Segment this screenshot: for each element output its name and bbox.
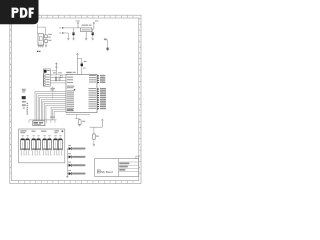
power flag VCC riser <box>77 53 79 74</box>
wire crystal ground <box>52 86 54 99</box>
connector J1 pin 2 <box>62 32 64 34</box>
frame zone numbers top <box>18 16 133 17</box>
X2 inner element <box>39 37 42 41</box>
power flag relay supply <box>101 119 103 127</box>
U3 output stubs <box>47 120 55 123</box>
ground C1 <box>72 39 74 40</box>
frame ruler ticks right <box>139 24 141 173</box>
U3 inner text <box>34 122 39 124</box>
wire TP1 <box>105 40 108 51</box>
wire driver rail <box>29 119 57 121</box>
frame zone letters right <box>138 18 141 168</box>
page frame outer border <box>10 15 141 183</box>
microcontroller U1 <box>66 74 97 112</box>
relay RL2 <box>32 135 41 155</box>
LED D2 <box>67 153 85 158</box>
connector J2 header <box>43 69 50 86</box>
relay RL3 <box>43 135 52 155</box>
crystal labels <box>53 71 56 74</box>
wire J2 top <box>52 70 57 72</box>
U1 right pins top group <box>89 75 105 84</box>
regulator U2 7805 <box>81 28 92 32</box>
U1 bottom-left inner label <box>67 109 73 111</box>
X2 pin wires down <box>39 44 43 47</box>
net label above X2 <box>37 51 39 52</box>
title block row texts <box>119 163 129 165</box>
connector J3 labels <box>22 88 26 91</box>
PDF badge label <box>12 8 34 18</box>
R5 label <box>96 136 99 137</box>
crystal X1 <box>55 77 56 82</box>
port bus wires P2.0-P2.7 <box>35 91 66 120</box>
power flag 12V riser <box>77 22 79 28</box>
driver IC U3 <box>33 121 45 126</box>
frame ruler ticks bottom <box>24 181 127 184</box>
wire VCC branch <box>77 58 81 63</box>
LED D3 <box>67 162 85 167</box>
component D5 <box>78 120 81 125</box>
wire R8 down <box>45 42 47 45</box>
U1 left pin wires to J2 <box>50 75 66 83</box>
oscillator module X2 box <box>38 34 44 45</box>
wire node to X2 <box>37 24 45 35</box>
power flag 5V riser <box>93 22 95 29</box>
connector J3 body <box>22 96 26 99</box>
J2 pin 1 block <box>44 70 47 73</box>
U1 left inner bus pin labels <box>67 90 74 111</box>
title block divider <box>118 159 120 177</box>
wire supply rail <box>90 126 103 128</box>
wire stub to D5 <box>75 115 80 120</box>
frame ruler ticks left <box>10 24 12 173</box>
wire C5 to RST <box>81 66 83 74</box>
J2 title label <box>47 70 50 71</box>
ground D5 <box>79 125 81 126</box>
J2 pin squares <box>44 74 50 86</box>
capacitor C4 <box>60 76 62 78</box>
relay RL4 <box>54 135 63 155</box>
LED D1 <box>67 145 85 150</box>
power flag above J2 <box>56 63 58 75</box>
ground R5 <box>93 145 95 146</box>
J3 lower rows <box>22 101 26 103</box>
LED D4 <box>67 170 85 175</box>
port wires P3 to driver <box>51 107 66 120</box>
test point TP1 label <box>104 39 107 40</box>
title block outer <box>95 159 139 177</box>
U1 inner mid labels <box>67 86 75 91</box>
U1 left inner pin labels (XTAL/RST rows) <box>67 74 73 83</box>
relay RL1 <box>21 135 30 155</box>
wire LED common <box>66 149 68 177</box>
ground hatch under X2 <box>38 46 40 47</box>
capacitor C2 wire <box>92 29 94 38</box>
relay module labels <box>20 130 26 131</box>
frame ruler ticks top <box>24 15 127 18</box>
wire R5 to ground <box>93 139 95 145</box>
resistor R7 <box>45 35 48 38</box>
U2 inner text <box>82 29 91 30</box>
power flag 12V label <box>76 21 80 22</box>
ground LED chain <box>66 176 68 177</box>
connector J1 pin 2 label <box>59 32 62 33</box>
frame zone letters left <box>9 18 12 168</box>
bus net labels <box>51 88 56 89</box>
flag label <box>55 67 57 68</box>
U1 right pins main group <box>89 88 107 110</box>
wire J1.1 to U2 VI <box>64 27 81 29</box>
power flag 5V label <box>95 21 98 22</box>
ground under R8 <box>45 46 47 47</box>
X2 labels <box>48 34 52 35</box>
wire J1.2 to ground <box>64 33 68 39</box>
title block tab <box>136 156 139 159</box>
resistor R5 <box>93 134 96 139</box>
page frame inner border <box>11 18 139 181</box>
connector J1 pin 1 label <box>59 27 62 28</box>
wire R7 to R8 <box>45 38 47 40</box>
wire U1 ground rail <box>66 114 90 116</box>
ground J1.2 <box>67 39 69 40</box>
frame zone numbers bottom <box>18 181 133 182</box>
driver rail label <box>50 117 55 118</box>
microcontroller U1 label <box>66 72 72 73</box>
capacitor C5 reset <box>81 62 83 64</box>
capacitor C3 <box>59 77 60 82</box>
PDF badge <box>0 0 39 24</box>
wire to R5 <box>93 127 95 134</box>
ground U2 <box>85 39 87 40</box>
U2 ground pin wire <box>85 32 87 39</box>
title block row lines <box>119 162 139 172</box>
title block logo box <box>97 170 100 173</box>
connector J1 pin 1 <box>62 27 64 29</box>
resistor R8 <box>45 40 48 43</box>
capacitor C1 <box>72 31 74 33</box>
wire U2 VO <box>92 28 94 30</box>
ground C2 <box>92 39 94 40</box>
capacitor C2 <box>92 31 94 33</box>
D5 label <box>82 121 85 122</box>
relay module box <box>19 129 65 163</box>
C5 label <box>84 61 87 62</box>
bus left labels <box>27 103 29 115</box>
X2 inner mark <box>39 42 42 44</box>
regulator U2 7805 label <box>82 25 89 26</box>
TP1 end label <box>107 48 109 51</box>
C5 value label <box>83 68 85 69</box>
wire rail left drop <box>28 120 30 123</box>
capacitor C1 wire <box>73 28 75 39</box>
svg-text:My friend: My friend <box>101 170 113 174</box>
